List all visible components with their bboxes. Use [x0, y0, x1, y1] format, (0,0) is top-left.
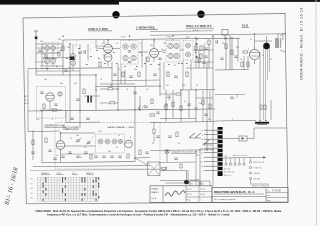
svg-text:UNDA RADIO - Modell. El 15-1: UNDA RADIO - Modell. El 15-16-18 [300, 7, 304, 80]
svg-text:RICEVITORE AM-FM EL/15 - 16: RICEVITORE AM-FM EL/15 - 16 - A [214, 191, 255, 194]
wire mid rail y75 [36, 74, 96, 76]
wire V5 legs [264, 48, 270, 121]
capacitor C39 [174, 76, 177, 77]
legend divider 2 [185, 186, 187, 203]
wire y166 bottom [33, 166, 150, 167]
svg-text:RADIO: RADIO [152, 191, 159, 194]
caption line 1 [36, 210, 282, 213]
wire y158 seg [135, 157, 150, 159]
resistor R20 [195, 46, 197, 51]
wire y53 left [36, 52, 60, 54]
T2 primary coil b [174, 43, 179, 48]
svg-text:5: 5 [248, 49, 249, 51]
wire y70 out [215, 69, 248, 71]
padder C21 [110, 156, 113, 157]
wire x73 coil leads [72, 44, 74, 71]
speaker arrow [280, 33, 285, 52]
resistor R22 [225, 44, 227, 49]
band switch contact marks [43, 178, 100, 201]
svg-text:1k: 1k [262, 55, 264, 57]
capacitor C25 [168, 136, 171, 137]
resistor R13 [108, 88, 113, 90]
T1 trimmer cap bottom [128, 62, 131, 63]
connector lead wires left [204, 130, 218, 171]
capacitor C13 [70, 118, 73, 119]
capacitor C41 [167, 96, 170, 97]
wire y162 seg [160, 161, 196, 163]
resistor R40 [58, 52, 60, 56]
wire x70 vertical [69, 44, 71, 75]
svg-text:RETE c.a.: RETE c.a. [224, 175, 232, 177]
FM antenna dashed box [43, 43, 58, 53]
coil L4 [50, 58, 55, 63]
wire T1 to rail [129, 39, 131, 40]
wire y94 seg [160, 93, 176, 95]
svg-text:UNDA: UNDA [152, 188, 159, 191]
svg-text:10n: 10n [150, 45, 153, 47]
wire det out [193, 49, 213, 51]
wire x140 vertical [139, 96, 141, 110]
svg-text:200: 200 [36, 119, 39, 121]
tube V6 UHF triode [46, 93, 54, 101]
oscillator dashed box [55, 123, 160, 170]
svg-text:200: 200 [236, 47, 239, 49]
node J1 [69, 43, 70, 44]
wire x244 vertical [243, 56, 245, 70]
wire x207 vertical [206, 62, 208, 150]
svg-text:S1: S1 [31, 179, 33, 181]
svg-text:0,1: 0,1 [102, 43, 105, 45]
coil L2 [51, 46, 56, 51]
svg-text:100: 100 [182, 85, 185, 87]
resistor R32 [138, 72, 140, 77]
svg-text:10n: 10n [134, 69, 137, 71]
capacitor C46 [230, 97, 233, 98]
capacitor C9 [40, 92, 43, 93]
electrolytic C26 [255, 122, 269, 125]
svg-text:300: 300 [40, 41, 43, 43]
wire diode [223, 128, 254, 139]
diode D1 [195, 43, 198, 46]
wire y122 seg [66, 121, 100, 124]
wire y118 audio [160, 117, 196, 119]
svg-text:200: 200 [163, 43, 166, 45]
wire x196 vertical [195, 38, 197, 68]
svg-text:Appr.: Appr. [267, 199, 271, 202]
legend UNDA RADIO text [152, 188, 159, 201]
resistor R23 [231, 50, 233, 55]
grid cap wire V1 [96, 40, 104, 49]
title right column [266, 188, 288, 203]
svg-text:25: 25 [161, 49, 163, 51]
tube V4 EL41 output [250, 34, 260, 64]
wire y103 seg [100, 102, 118, 104]
wire x230 vertical [229, 35, 231, 70]
capacitor C16 [144, 106, 147, 107]
tiny labels audio [168, 99, 202, 105]
resistor R5 [200, 46, 202, 51]
svg-text:8: 8 [158, 69, 159, 71]
wire x112 vertical [111, 62, 113, 86]
electrolytic C11 [87, 96, 92, 103]
svg-text:16-18: 16-18 [200, 194, 205, 196]
capacitor C32 [156, 112, 159, 113]
wire y154 osc [60, 153, 95, 155]
wire y66 left [40, 65, 63, 67]
wire x80b vertical [79, 75, 81, 128]
core line L3-L4 [43, 57, 57, 58]
legend small text [187, 188, 206, 201]
wire antenna down [35, 39, 37, 75]
svg-text:25: 25 [152, 143, 154, 145]
wire y122 audio [150, 122, 215, 123]
FM unit dashed box [37, 87, 66, 119]
svg-text:Dis. N.: Dis. N. [200, 188, 206, 190]
volume pot R25 [164, 104, 168, 110]
wire top rail left [36, 43, 63, 45]
svg-text:ALT. 4Ω: ALT. 4Ω [224, 167, 231, 170]
label A.T. rows [25, 95, 30, 105]
svg-text:70: 70 [240, 59, 242, 61]
wire y120 rail right [215, 120, 256, 123]
switch S2 mains [189, 133, 201, 138]
resistor R7 [208, 40, 210, 45]
svg-text:5: 5 [205, 43, 206, 45]
socket drop 1 [225, 158, 227, 165]
svg-text:Tav. compless. generale: Tav. compless. generale [214, 199, 236, 201]
wire x166 vertical [165, 90, 167, 122]
wire x286 inner [270, 100, 272, 120]
svg-text:S2: S2 [31, 183, 33, 185]
wire y41 right [255, 40, 272, 42]
title date handwritten [267, 190, 281, 193]
osc bottom rail [42, 162, 135, 163]
wire y98 seg [196, 97, 213, 99]
osc coil Ld [118, 139, 122, 143]
resistor R34 [186, 72, 188, 77]
coil L1 [45, 46, 50, 51]
svg-text:S.p.A.: S.p.A. [152, 197, 158, 200]
svg-text:10n: 10n [76, 135, 79, 137]
wire x135 vertical [134, 86, 136, 110]
title Tav text [214, 199, 236, 201]
svg-text:CONV. E 1ª MOD.: CONV. E 1ª MOD. [88, 27, 109, 31]
IF transformer T1 dashed can [121, 41, 139, 65]
capacitor C29 [220, 58, 223, 59]
svg-text:0,5: 0,5 [84, 147, 87, 149]
wire x48 coil leads [47, 51, 53, 59]
wire x213b vertical [212, 62, 214, 186]
capacitor C44 [118, 156, 121, 157]
wire x189 vertical [188, 90, 190, 118]
svg-text:5k: 5k [178, 143, 180, 145]
svg-text:1ª MEDIA FREQ.: 1ª MEDIA FREQ. [136, 26, 156, 30]
svg-text:20k: 20k [67, 47, 70, 49]
capacitor C6 [204, 48, 207, 49]
resistor R24 [241, 62, 243, 67]
svg-text:50: 50 [116, 43, 118, 45]
oscillator coil dashed box [96, 134, 125, 153]
legend divider 1 [162, 186, 164, 203]
wire top right corner loop [254, 60, 287, 128]
wire x213 vertical [212, 36, 214, 62]
svg-text:Scala: Scala [187, 188, 192, 190]
svg-text:osc.: osc. [200, 148, 204, 150]
svg-text:acc.: acc. [200, 162, 204, 164]
wire x173 vertical [172, 90, 174, 118]
diode D3 rect [239, 136, 247, 141]
rheostat R17 [162, 167, 167, 172]
connector labels left [200, 129, 204, 173]
capacitor C4 [84, 50, 85, 53]
resistor R29 [32, 140, 34, 145]
capacitor C10 [54, 104, 57, 105]
antenna terminal [34, 31, 38, 39]
svg-text:50: 50 [126, 89, 128, 91]
svg-text:300: 300 [60, 83, 63, 85]
power transformer box [148, 162, 161, 176]
table header MF [86, 173, 94, 175]
resistor R28 [150, 114, 155, 116]
socket drop 3 [234, 158, 236, 165]
capacitor C38 [153, 74, 156, 75]
svg-text:0,1: 0,1 [103, 55, 106, 57]
title Appr [267, 199, 271, 202]
svg-text:TERRA: TERRA [254, 172, 261, 175]
diode D2 [195, 56, 198, 59]
svg-text:50: 50 [66, 129, 68, 131]
title Verif [267, 194, 271, 197]
capacitor C36 [113, 74, 116, 75]
svg-text:S4: S4 [31, 193, 33, 195]
svg-text:20k: 20k [108, 151, 111, 153]
capacitor C47 [156, 136, 159, 137]
cathode resistor R9 [247, 62, 249, 67]
T1 trimmer cap top [128, 51, 131, 52]
wire y133 seg [61, 132, 96, 134]
wire y150 rail [150, 149, 213, 152]
ground G1 [45, 68, 48, 70]
svg-text:4-7/6/56: 4-7/6/56 [272, 190, 281, 193]
resistor R1 [62, 46, 64, 51]
wire y48 left [36, 47, 63, 49]
wire V1 anode to IF1 [112, 48, 120, 50]
wire lamp leads [160, 154, 167, 169]
tube V1 ECH42 converter [104, 40, 113, 53]
capacitor C34 [48, 150, 51, 151]
socket drop 4 [238, 158, 240, 165]
svg-text:5: 5 [90, 49, 91, 51]
wire x80 vertical [79, 44, 81, 75]
wire x33 vertical [32, 130, 34, 160]
section label 1a MEDIA FREQ. [136, 26, 158, 30]
svg-text:25: 25 [270, 59, 272, 61]
wire x118 vertical [117, 64, 119, 110]
label GRUPPO UHF [45, 124, 67, 127]
tube V2 EF41 IF amplifier [150, 39, 159, 62]
wire y84 seg [100, 83, 135, 85]
svg-text:1k: 1k [56, 155, 58, 157]
socket drop 2 [229, 158, 231, 165]
resistor R10 [43, 104, 45, 109]
sheet border frame [23, 14, 288, 204]
wire x181 vertical [180, 90, 182, 122]
wire FM box internals [40, 101, 62, 110]
svg-text:CAMBIO GAMMA — ONDE: CAMBIO GAMMA — ONDE [107, 126, 135, 129]
component specks [44, 38, 207, 67]
wire x200 vertical [199, 150, 201, 186]
wire y68 rail [28, 67, 112, 70]
wire y96 seg [84, 95, 100, 97]
tube label EL41 [242, 24, 249, 28]
svg-text:S3: S3 [31, 188, 33, 190]
capacitor C40 [204, 114, 207, 115]
osc coil Lc [112, 139, 117, 144]
wire x70b vertical [69, 75, 71, 122]
wire above title block [165, 182, 201, 184]
wire x104 vertical [103, 40, 105, 44]
svg-text:S1: S1 [191, 184, 193, 186]
capacitor C42 [61, 156, 64, 157]
top edge black line [115, 0, 320, 2]
band switch grid table [38, 177, 99, 201]
T2 secondary coil b [174, 53, 179, 58]
svg-text:15: 15 [80, 157, 82, 159]
svg-text:2k: 2k [118, 69, 120, 71]
coil L3 AM aerial [44, 58, 49, 63]
wire x96 vertical [95, 75, 97, 110]
tube V1 triode section [104, 54, 112, 67]
wire OT to frame [278, 34, 283, 40]
relay box K1 [190, 181, 199, 186]
svg-text:8: 8 [52, 119, 53, 121]
wire x28b vertical [27, 111, 29, 132]
svg-text:Fog.: Fog. [187, 200, 191, 202]
resistor R12 [83, 89, 85, 94]
table header ONDE CORTE [41, 173, 51, 175]
IF transformer T2 dashed can [166, 41, 180, 63]
screen capacitor C5 [158, 58, 161, 59]
wire y180 seg [160, 179, 200, 182]
table header ONDE LUNGHE [72, 173, 78, 175]
dashed line above table [30, 169, 160, 172]
tiny labels osc [70, 131, 118, 149]
coil L7 [58, 92, 62, 96]
wire x164 vertical [163, 62, 165, 90]
wire T1 out [138, 51, 148, 53]
svg-text:100: 100 [196, 155, 199, 157]
wire y62 det [193, 61, 213, 63]
svg-text:2k: 2k [196, 39, 198, 41]
wire V2 anode to T2 [158, 50, 166, 52]
capacitor C33 [31, 152, 34, 153]
wire x260 vertical [259, 52, 261, 120]
coil L6 [71, 61, 76, 66]
punch hole left [112, 11, 119, 18]
wire y39 main rail [63, 38, 240, 40]
capacitor C27 [202, 62, 205, 63]
svg-text:5: 5 [232, 119, 233, 121]
resistor R36 [209, 104, 211, 109]
svg-text:20k: 20k [44, 79, 47, 81]
tube V3 oscillator triode [56, 133, 65, 162]
legend signature [165, 191, 185, 196]
capacitor C1 [44, 56, 47, 57]
wire x125 vertical [124, 70, 126, 84]
T1 secondary coil a [123, 55, 128, 60]
legend block frame [150, 186, 212, 203]
svg-text:RIVEL. E 2ª MOD. B.F.: RIVEL. E 2ª MOD. B.F. [186, 24, 212, 28]
svg-text:Verif.: Verif. [267, 194, 271, 197]
grid stopper R8 [243, 51, 248, 53]
title block frame [212, 188, 288, 203]
svg-text:300: 300 [186, 37, 189, 39]
capacitor C28 [234, 56, 237, 57]
tuning gang C17 [76, 138, 81, 142]
wire y31 right seg [150, 30, 213, 33]
ratio detector T3 dashed can [183, 41, 193, 61]
note above title block [252, 184, 267, 187]
svg-text:A.C.G.: A.C.G. [193, 29, 199, 32]
tiny labels mid [103, 37, 172, 58]
top margin black bar [0, 0, 119, 5]
osc coil La [98, 139, 103, 144]
wire x66 vertical [65, 110, 67, 123]
relay box K2 [201, 181, 210, 186]
bracket to title block [251, 180, 269, 188]
wire x121 vertical [120, 64, 122, 84]
T1 primary coil a [123, 44, 128, 49]
T2 primary coil [168, 43, 173, 48]
wire x188 vertical [187, 170, 189, 180]
wire x196b vertical [195, 90, 197, 122]
capacitor C37 [129, 76, 132, 77]
T1 secondary coil b [131, 55, 136, 60]
wire x248 vertical [247, 56, 249, 70]
punch hole right [197, 11, 204, 18]
core line L5 [70, 59, 76, 61]
resistor R42 [180, 164, 182, 168]
wire y89 seg [100, 88, 118, 90]
capacitor C7 [204, 56, 207, 57]
wire x28 vertical [27, 69, 29, 111]
T1 primary coil b [131, 44, 136, 49]
tuning gang C18 [86, 141, 91, 145]
wire y148 seg [65, 145, 96, 147]
capacitor C8 [216, 40, 217, 43]
svg-text:S5: S5 [31, 198, 33, 200]
output transformer T4 [276, 38, 281, 48]
wire y110 long rail [28, 109, 215, 111]
wire x42b vertical [41, 111, 43, 163]
svg-text:1° M.F.: 1° M.F. [120, 37, 126, 39]
switch S3 [203, 140, 213, 145]
label lamp [171, 151, 198, 154]
svg-text:EL 15: EL 15 [187, 194, 192, 196]
svg-text:25: 25 [75, 45, 77, 47]
svg-text:frequenza a 467 Kc/s. e a 10,7: frequenza a 467 Kc/s. e a 10,7 Mc/s. Con… [47, 214, 230, 217]
capacitor C23 [84, 152, 87, 153]
wire x238 vertical [237, 38, 239, 62]
resistor R41 [153, 129, 155, 134]
wire x135b vertical [134, 110, 136, 162]
resistor R26 [172, 102, 174, 107]
wire x88 vertical [87, 44, 89, 60]
resistor R21 [198, 58, 200, 63]
resistor R37 [176, 93, 181, 95]
wire x154 vertical [153, 122, 155, 142]
wire x42 vertical [41, 44, 43, 66]
